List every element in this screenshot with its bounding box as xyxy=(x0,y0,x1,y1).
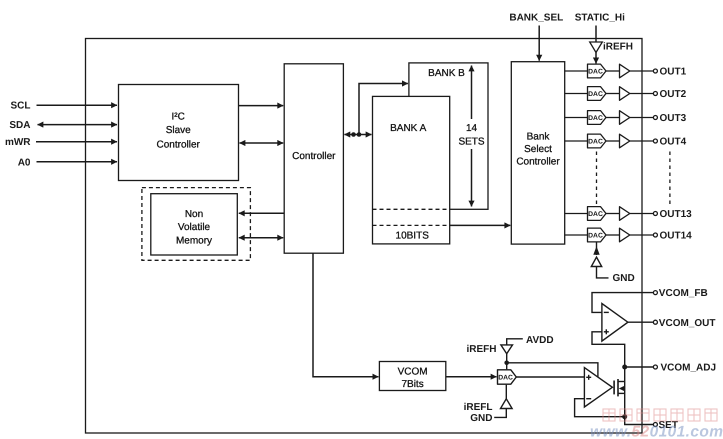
svg-text:Bank: Bank xyxy=(527,132,551,143)
svg-text:VCOM: VCOM xyxy=(398,367,428,378)
svg-text:DAC: DAC xyxy=(498,375,513,382)
svg-text:OUT2: OUT2 xyxy=(660,89,687,100)
svg-text:GND: GND xyxy=(470,413,492,424)
svg-text:iREFH: iREFH xyxy=(603,41,633,52)
svg-text:I²C: I²C xyxy=(172,112,185,123)
svg-text:Controller: Controller xyxy=(292,151,336,162)
svg-text:Controller: Controller xyxy=(157,139,201,150)
svg-text:SCL: SCL xyxy=(11,101,31,112)
svg-text:VCOM_ADJ: VCOM_ADJ xyxy=(661,363,717,374)
svg-text:VCOM_OUT: VCOM_OUT xyxy=(659,318,716,329)
svg-text:AVDD: AVDD xyxy=(526,335,554,346)
svg-text:Slave: Slave xyxy=(166,125,191,136)
svg-text:SDA: SDA xyxy=(9,120,30,131)
svg-text:14: 14 xyxy=(466,123,478,134)
svg-text:OUT4: OUT4 xyxy=(660,137,687,148)
svg-text:BANK_SEL: BANK_SEL xyxy=(509,12,563,23)
svg-text:BANK B: BANK B xyxy=(428,68,465,79)
svg-text:OUT1: OUT1 xyxy=(660,67,687,78)
svg-text:Volatile: Volatile xyxy=(178,222,211,233)
svg-text:7Bits: 7Bits xyxy=(401,379,423,390)
svg-text:DAC: DAC xyxy=(588,68,603,75)
svg-text:iREFL: iREFL xyxy=(464,402,493,413)
svg-text:OUT14: OUT14 xyxy=(660,231,693,242)
svg-text:DAC: DAC xyxy=(588,211,603,218)
svg-text:10BITS: 10BITS xyxy=(396,231,430,242)
svg-text:Select: Select xyxy=(524,144,552,155)
svg-text:DAC: DAC xyxy=(588,91,603,98)
svg-text:Memory: Memory xyxy=(176,235,212,246)
svg-text:DAC: DAC xyxy=(588,138,603,145)
svg-text:www.520101.com: www.520101.com xyxy=(590,424,723,439)
svg-text:DAC: DAC xyxy=(588,232,603,239)
svg-text:A0: A0 xyxy=(18,157,31,168)
svg-text:STATIC_Hi: STATIC_Hi xyxy=(575,12,625,23)
svg-text:DAC: DAC xyxy=(588,115,603,122)
svg-text:BANK A: BANK A xyxy=(390,123,426,134)
svg-text:SETS: SETS xyxy=(458,137,484,148)
svg-text:Controller: Controller xyxy=(516,156,560,167)
svg-text:GND: GND xyxy=(613,273,635,284)
svg-text:iREFH: iREFH xyxy=(467,344,497,355)
svg-text:Non: Non xyxy=(185,209,203,220)
svg-text:OUT13: OUT13 xyxy=(660,209,693,220)
svg-text:mWR: mWR xyxy=(5,137,31,148)
svg-text:OUT3: OUT3 xyxy=(660,113,687,124)
svg-text:VCOM_FB: VCOM_FB xyxy=(659,288,708,299)
